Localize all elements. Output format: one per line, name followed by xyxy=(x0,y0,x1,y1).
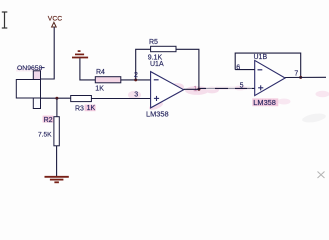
wire R5 right down to output xyxy=(176,49,199,89)
resistor R4 body (highlighted) xyxy=(95,77,121,83)
svg-text:2: 2 xyxy=(134,72,138,79)
op-amp U1A triangle xyxy=(151,72,184,108)
junction dot U1A output xyxy=(197,88,200,91)
op-amp U1A minus sign xyxy=(154,79,159,81)
resistor R3 value 1K (highlighted) xyxy=(85,105,96,112)
wire VCC stem down and left to sensor xyxy=(40,27,54,79)
svg-text:1K: 1K xyxy=(95,85,104,92)
faint smear bottom right xyxy=(301,112,326,124)
wire U1A output to U1B pin 5 xyxy=(184,87,255,90)
svg-text:U1A: U1A xyxy=(150,61,164,68)
svg-text:5: 5 xyxy=(240,82,244,89)
pink smudge over U1A triangle xyxy=(148,80,219,111)
svg-text:7.5K: 7.5K xyxy=(38,131,52,138)
wire U1B feedback loop xyxy=(235,53,301,77)
svg-text:U1B: U1B xyxy=(254,54,268,61)
svg-text:7: 7 xyxy=(294,70,298,77)
resistor R2 label (highlighted) xyxy=(43,116,54,123)
pink smudge near pin 3 xyxy=(128,91,141,99)
pink smudge on wire to pin 5 xyxy=(216,87,250,90)
wire feedback riser up to R5 xyxy=(136,49,151,80)
svg-text:R3: R3 xyxy=(75,106,84,113)
wire top ground stem to R4 xyxy=(80,58,95,80)
wire R4 to U1A pin 2 xyxy=(121,79,151,81)
pink smudge near pin 5 xyxy=(235,85,246,90)
sensor ON9658 bottom arm xyxy=(33,98,40,109)
svg-text:R2: R2 xyxy=(44,117,53,124)
junction dot feedback tap xyxy=(134,78,137,81)
wire R3 to U1A pin 3 xyxy=(91,98,150,100)
sensor ON9658 body xyxy=(16,80,40,99)
wire U1B pin 6 xyxy=(235,69,255,71)
wire R2 to ground xyxy=(56,146,58,177)
ground symbol top (flipped) xyxy=(72,51,88,57)
pink smudge right edge xyxy=(316,91,329,97)
junction dot at R2 tap xyxy=(55,97,58,100)
svg-text:LM358: LM358 xyxy=(146,110,169,119)
wire sensor output to R3 xyxy=(40,97,70,99)
junction dot U1B output xyxy=(299,76,302,79)
op-amp U1B triangle xyxy=(255,60,285,95)
svg-text:6: 6 xyxy=(236,64,240,71)
stray mark bottom right xyxy=(318,172,325,179)
ground symbol bottom xyxy=(45,177,69,183)
op-amp U1B minus sign xyxy=(258,69,263,71)
pink smudge right of U1B part number xyxy=(278,99,291,105)
resistor R3 body xyxy=(71,96,92,102)
pink smudge under ON9658 label xyxy=(16,68,42,71)
op-amp U1B plus sign xyxy=(258,85,263,90)
resistor R2 body xyxy=(54,117,59,146)
svg-text:1: 1 xyxy=(193,84,197,93)
svg-text:3: 3 xyxy=(134,92,138,99)
op-amp U1A plus sign xyxy=(154,96,159,101)
svg-text:1K: 1K xyxy=(87,105,96,112)
sensor ON9658 top arm xyxy=(33,71,40,80)
VCC power symbol (open triangle) xyxy=(52,22,57,27)
wire junction down to R2 xyxy=(56,98,58,117)
svg-text:VCC: VCC xyxy=(48,15,62,22)
svg-text:R5: R5 xyxy=(149,39,158,46)
svg-text:LM358: LM358 xyxy=(253,98,276,107)
resistor R5 body xyxy=(151,46,176,51)
svg-text:R4: R4 xyxy=(96,69,105,76)
dash after sensor label xyxy=(42,67,45,69)
faded spots on wire to pin 5 xyxy=(206,87,252,90)
text cursor I-beam xyxy=(2,12,8,28)
op-amp U1B part number LM358 (highlighted) xyxy=(252,98,278,106)
wire U1B output xyxy=(285,76,326,78)
